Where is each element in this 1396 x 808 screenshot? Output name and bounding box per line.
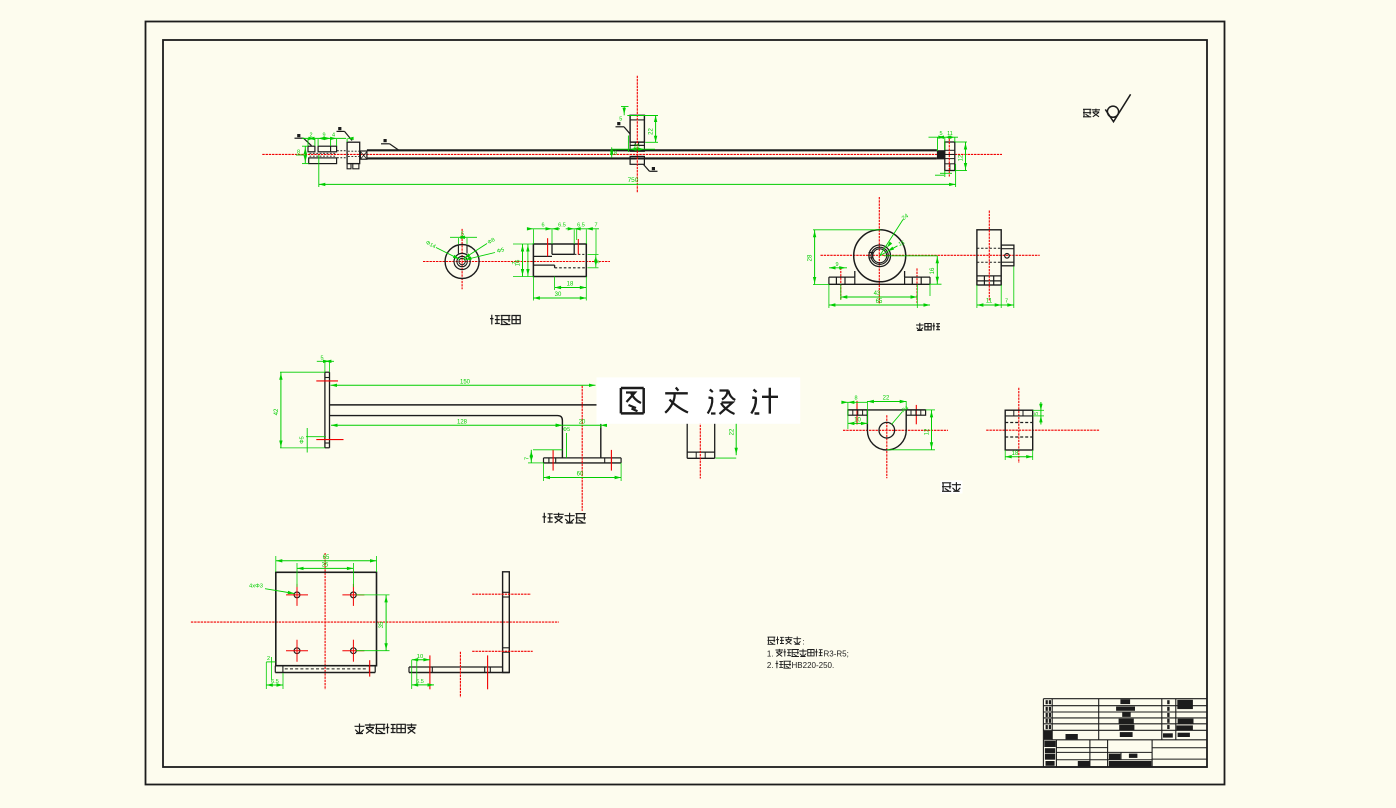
svg-text:5: 5 — [939, 131, 942, 137]
svg-text:11: 11 — [947, 131, 953, 137]
svg-text:R3-R5;: R3-R5; — [824, 649, 849, 658]
svg-text:6.5: 6.5 — [558, 223, 566, 229]
svg-text:35: 35 — [379, 621, 385, 628]
svg-text:65: 65 — [876, 299, 883, 305]
svg-text:43: 43 — [874, 291, 881, 297]
svg-text:12: 12 — [925, 428, 931, 435]
svg-text:4xΦ3: 4xΦ3 — [249, 584, 263, 590]
svg-text:12: 12 — [958, 154, 964, 161]
svg-text::: : — [803, 637, 805, 646]
svg-text:65: 65 — [323, 555, 330, 561]
svg-text:60: 60 — [577, 472, 584, 478]
svg-text:7: 7 — [512, 261, 518, 264]
svg-text:42: 42 — [274, 408, 280, 415]
svg-text:5: 5 — [1034, 412, 1040, 415]
svg-text:750: 750 — [628, 177, 639, 184]
svg-text:Φ5: Φ5 — [300, 436, 306, 443]
svg-text:18: 18 — [567, 282, 574, 288]
svg-text:4: 4 — [332, 133, 335, 139]
svg-text:2: 2 — [309, 133, 312, 139]
svg-text:Φ5: Φ5 — [563, 427, 570, 433]
svg-text:7: 7 — [524, 457, 530, 460]
svg-text:5: 5 — [619, 117, 622, 123]
svg-text:HB220-250.: HB220-250. — [792, 661, 835, 670]
svg-text:7: 7 — [594, 223, 597, 229]
svg-text:8: 8 — [614, 151, 617, 157]
svg-text:6.5: 6.5 — [271, 679, 279, 685]
svg-text:5: 5 — [461, 231, 464, 237]
svg-text:16: 16 — [930, 267, 936, 274]
svg-text:150: 150 — [460, 380, 471, 386]
svg-text:7: 7 — [1005, 299, 1008, 305]
svg-text:22: 22 — [729, 428, 735, 435]
svg-text:18: 18 — [1012, 451, 1019, 457]
svg-text:6.5: 6.5 — [577, 223, 585, 229]
svg-text:20: 20 — [579, 420, 586, 426]
svg-text:22: 22 — [883, 396, 890, 402]
svg-text:2.: 2. — [767, 661, 774, 670]
svg-text:25: 25 — [633, 144, 639, 150]
svg-text:128: 128 — [457, 420, 468, 426]
svg-text:22: 22 — [648, 128, 654, 135]
svg-text:6: 6 — [541, 223, 544, 229]
svg-text:8: 8 — [297, 149, 300, 155]
svg-text:8: 8 — [595, 260, 601, 263]
svg-text:10: 10 — [417, 654, 423, 660]
svg-text:11: 11 — [986, 299, 993, 305]
svg-text:10: 10 — [854, 418, 861, 424]
svg-text:30: 30 — [555, 292, 562, 298]
svg-text:9: 9 — [322, 133, 325, 139]
svg-text:1.: 1. — [767, 649, 774, 658]
svg-text:8: 8 — [854, 396, 857, 402]
svg-text:9: 9 — [835, 262, 838, 268]
svg-text:2: 2 — [267, 656, 270, 662]
svg-text:5: 5 — [320, 356, 323, 362]
svg-text:35: 35 — [322, 563, 329, 569]
svg-text:6.5: 6.5 — [416, 679, 424, 685]
svg-text:28: 28 — [807, 254, 813, 261]
